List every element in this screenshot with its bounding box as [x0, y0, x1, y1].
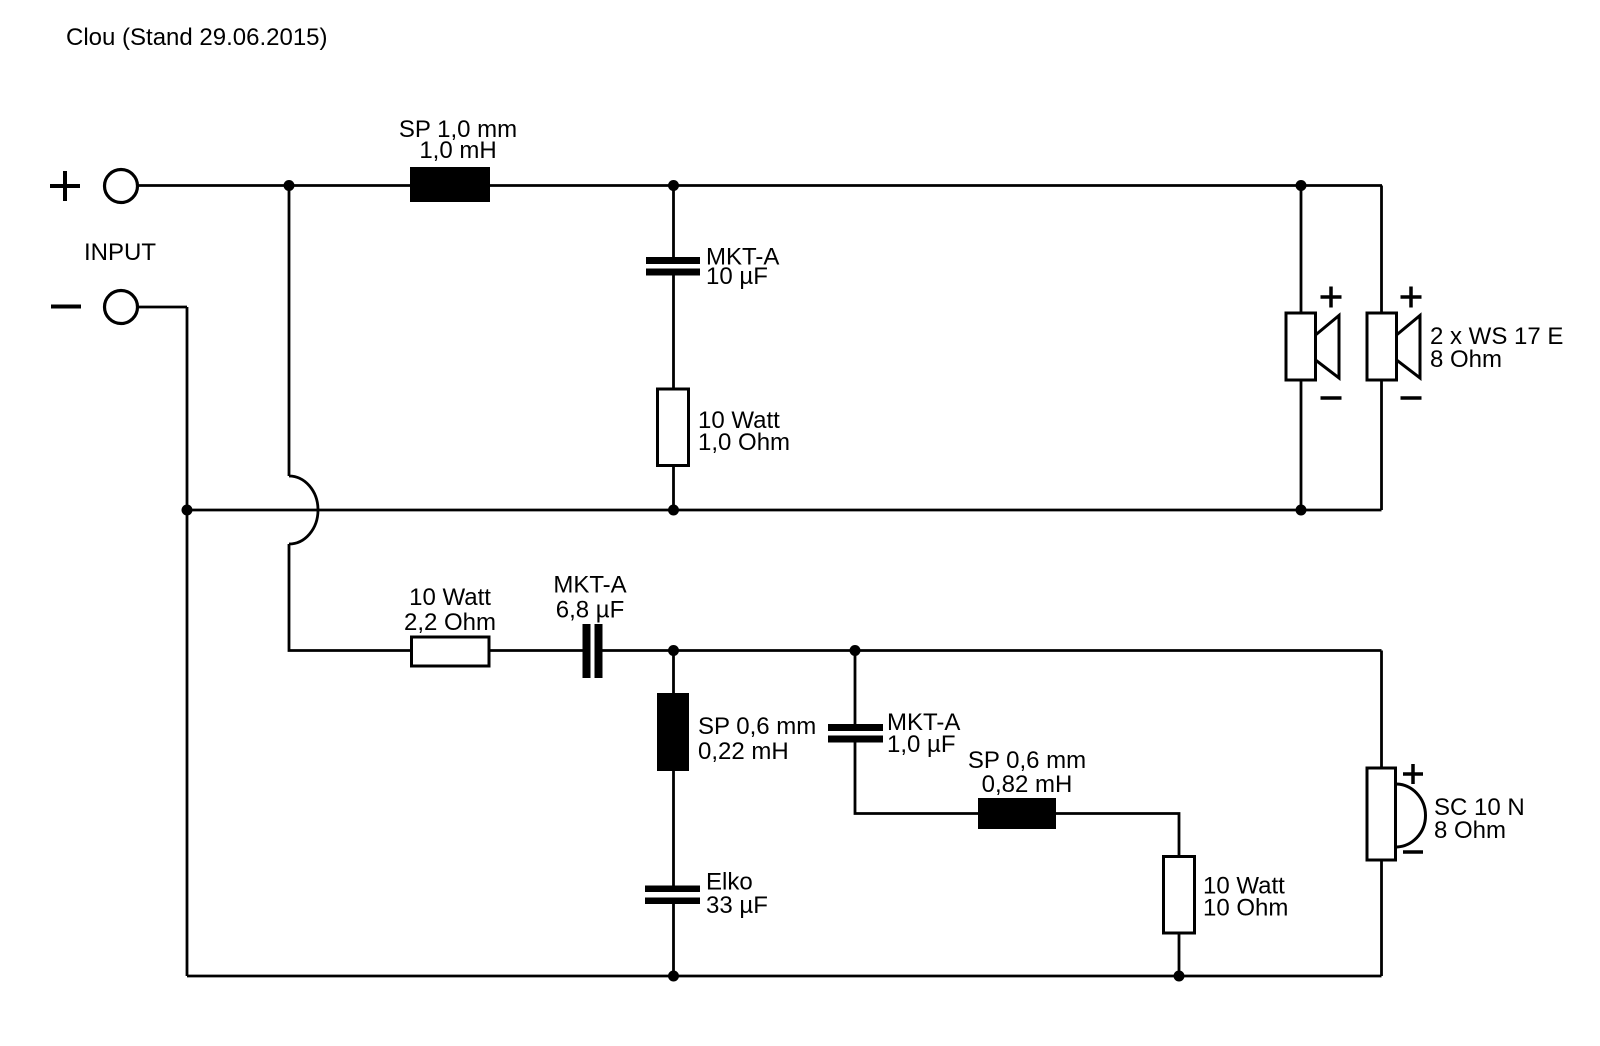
wire: upper-section bottom rail — [187, 509, 1382, 512]
node: junction LS1 bottom / rail — [1296, 505, 1307, 516]
INPUT label — [84, 239, 156, 266]
label L2 — [698, 713, 816, 765]
resistor R2 10 Watt 2,2 Ohm — [412, 637, 490, 666]
input terminal + — [105, 170, 138, 203]
svg-text:SP 0,6 mm: SP 0,6 mm — [968, 747, 1086, 774]
wire: R1 to mid-top rail — [672, 466, 675, 511]
wire: speaker LS1 top lead — [1300, 186, 1303, 314]
svg-text:INPUT: INPUT — [84, 239, 156, 266]
wire: mid rail to C4 — [854, 651, 857, 725]
input terminal - — [105, 291, 138, 324]
tweeter LS3 SC 10 N — [1367, 768, 1426, 860]
label C3 — [706, 869, 768, 920]
wire: C1 to R1 — [672, 276, 675, 390]
label LS1/LS2 — [1430, 323, 1563, 373]
inductor L3 SP 0,6 mm 0,82 mH — [978, 798, 1056, 829]
wire: speaker LS2 top lead — [1380, 186, 1383, 314]
LS1 minus sign — [1321, 396, 1342, 400]
label L1 — [399, 116, 517, 164]
wire: R2 to C2 — [489, 649, 583, 652]
wire: minus terminal lead — [138, 306, 188, 309]
inductor L2 SP 0,6 mm 0,22 mH — [657, 693, 689, 771]
inductor L1 SP 1,0 mm 1,0 mH — [410, 167, 490, 202]
wire: LS1 bottom lead — [1300, 380, 1303, 510]
LS1 plus sign — [1321, 287, 1342, 308]
label C1 — [706, 244, 779, 291]
wire: vertical drop from top rail to hop — [288, 186, 291, 477]
svg-text:10 Ohm: 10 Ohm — [1203, 895, 1288, 922]
svg-text:2,2 Ohm: 2,2 Ohm — [404, 609, 496, 636]
svg-text:1,0 mH: 1,0 mH — [419, 137, 496, 164]
label LS3 — [1434, 794, 1525, 844]
wire: bottom rail — [187, 975, 1382, 978]
wire: mid rail from C2 to tweeter corner — [603, 649, 1382, 652]
label L3 — [968, 747, 1086, 798]
wire: C4 down and right to L3 — [855, 743, 978, 814]
input minus sign — [51, 305, 81, 309]
svg-text:SP 0,6 mm: SP 0,6 mm — [698, 713, 816, 740]
svg-text:10 µF: 10 µF — [706, 263, 768, 290]
node: junction left rail / bottom rail — [182, 505, 193, 516]
resistor R1 10 Watt 1,0 Ohm — [658, 389, 689, 466]
node: junction mid rail / C4 — [850, 645, 861, 656]
wire hop over mid rail — [289, 476, 318, 544]
label R3 — [1203, 873, 1288, 922]
node: junction R1 bottom — [668, 505, 679, 516]
svg-text:8 Ohm: 8 Ohm — [1430, 346, 1502, 373]
svg-text:10 Watt: 10 Watt — [409, 584, 491, 611]
label C4 — [887, 709, 960, 758]
input plus sign — [50, 171, 80, 201]
svg-text:Clou (Stand 29.06.2015): Clou (Stand 29.06.2015) — [66, 24, 328, 51]
wire: mid rail to L2 — [672, 651, 675, 694]
wire: C3 to bottom rail — [672, 904, 675, 976]
wire: L3 right and down to R3 — [1056, 814, 1179, 857]
LS3 plus sign — [1403, 764, 1423, 784]
wire: vertical below hop to lower branch — [289, 544, 413, 651]
svg-text:1,0 Ohm: 1,0 Ohm — [698, 429, 790, 456]
node: junction mid rail / L2 — [668, 645, 679, 656]
label C2 — [553, 572, 626, 624]
node: junction R3 / bottom rail — [1174, 971, 1185, 982]
wire: top rail from + terminal to right corner — [138, 184, 1383, 187]
speaker LS1 (woofer 1) — [1286, 313, 1339, 380]
title — [66, 24, 328, 51]
capacitor C2 MKT-A 6,8 uF — [583, 624, 603, 678]
node: junction top rail / C1 branch — [668, 180, 679, 191]
wire: top rail down to C1 — [672, 186, 675, 258]
speaker LS2 (woofer 2) — [1367, 313, 1420, 380]
node: junction C3 / bottom rail — [668, 971, 679, 982]
svg-text:1,0 µF: 1,0 µF — [887, 731, 956, 758]
wire: tweeter top lead — [1380, 651, 1383, 769]
node: junction top rail / LS1 — [1296, 180, 1307, 191]
LS2 plus sign — [1401, 287, 1422, 308]
svg-text:8 Ohm: 8 Ohm — [1434, 817, 1506, 844]
svg-text:0,82 mH: 0,82 mH — [982, 771, 1073, 798]
capacitor C1 MKT-A 10 uF — [646, 257, 700, 276]
wire: L2 to C3 — [672, 771, 675, 886]
LS3 minus sign — [1403, 850, 1423, 854]
wire: tweeter bottom lead — [1380, 860, 1383, 976]
wire: LS2 bottom lead — [1380, 380, 1383, 510]
svg-text:6,8 µF: 6,8 µF — [556, 597, 625, 624]
svg-text:0,22 mH: 0,22 mH — [698, 738, 789, 765]
wire: left vertical return (minus) — [186, 307, 189, 976]
svg-text:33 µF: 33 µF — [706, 892, 768, 919]
LS2 minus sign — [1401, 396, 1422, 400]
label R2 — [404, 584, 496, 636]
svg-text:MKT-A: MKT-A — [553, 572, 626, 599]
node: junction on top rail at x=289 — [284, 180, 295, 191]
capacitor C3 Elko 33 uF — [645, 886, 700, 905]
wire: R3 to bottom rail — [1178, 933, 1181, 976]
label R1 — [698, 407, 790, 456]
capacitor C4 MKT-A 1,0 uF — [828, 724, 883, 743]
resistor R3 10 Watt 10 Ohm — [1164, 857, 1195, 934]
